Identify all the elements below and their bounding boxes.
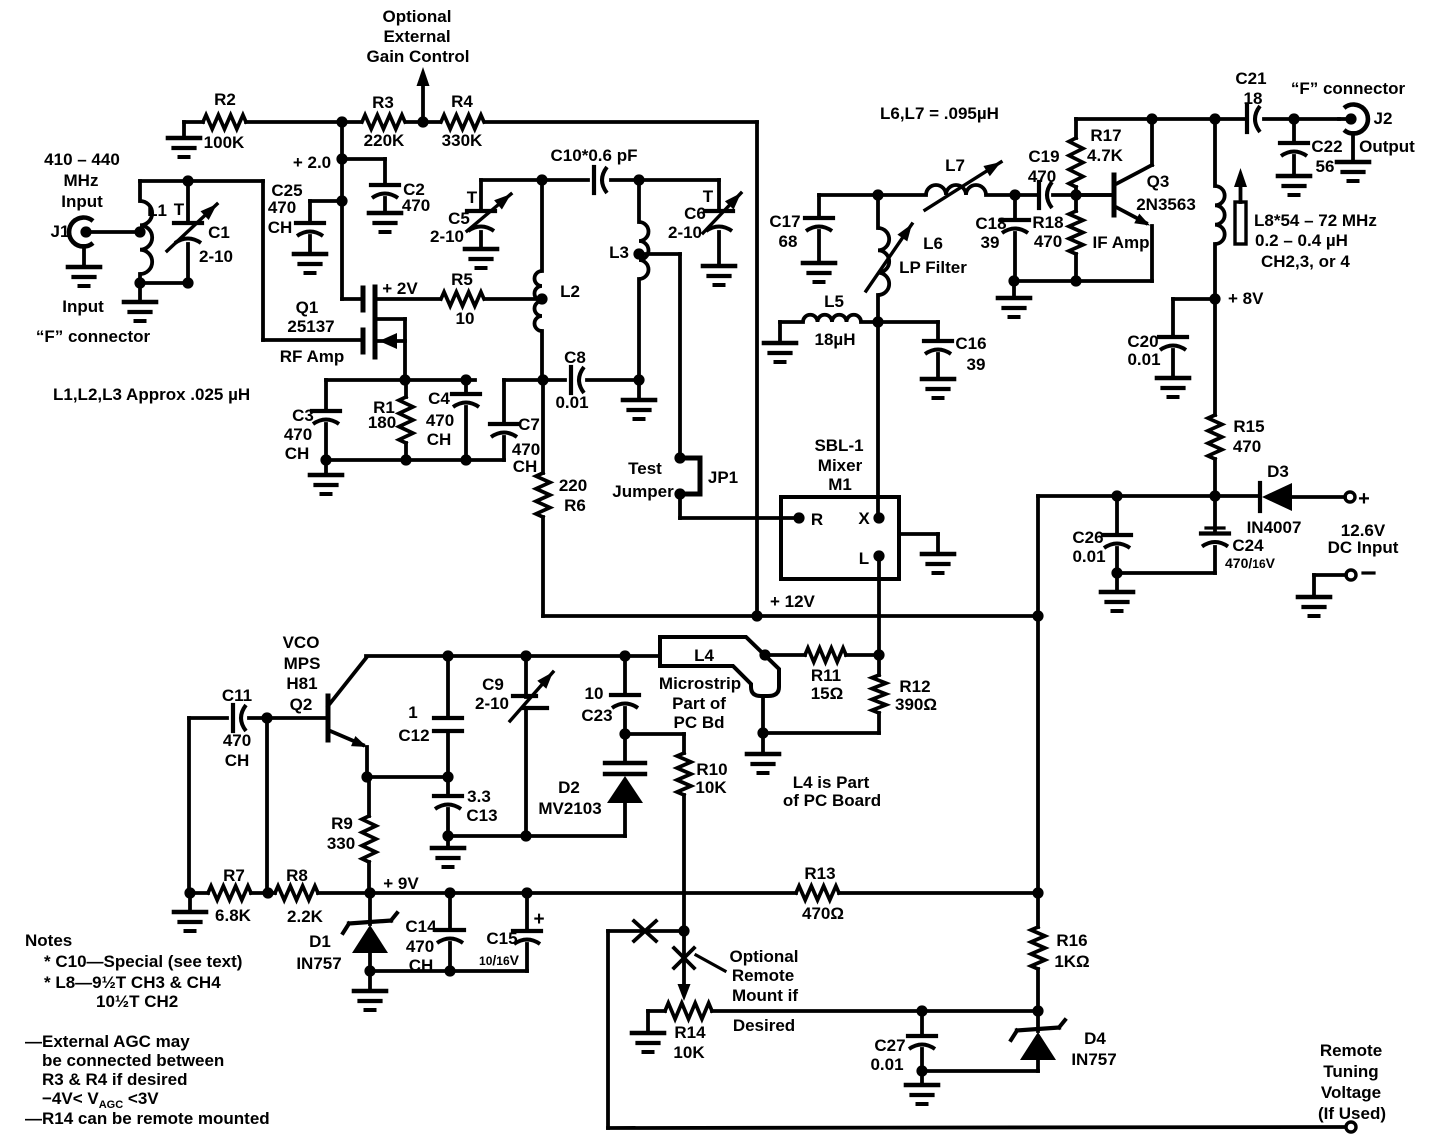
label Desired <box>733 1016 795 1035</box>
wire tuning node <box>712 1005 1038 1016</box>
label Part of <box>672 694 726 713</box>
capacitor C10 <box>551 146 638 193</box>
svg-text:CH: CH <box>427 430 452 449</box>
svg-text:T: T <box>467 188 478 207</box>
capacitor C4 <box>426 380 480 460</box>
ground IF amp <box>998 298 1030 317</box>
inductor L7 <box>925 156 1001 210</box>
svg-text:Desired: Desired <box>733 1016 795 1035</box>
resistor R18 <box>1032 195 1083 281</box>
label D1 <box>309 932 331 951</box>
capacitor C1 trimmer <box>167 181 233 283</box>
svg-text:D4: D4 <box>1084 1029 1106 1048</box>
svg-text:C20: C20 <box>1127 332 1158 351</box>
svg-text:“F” connector: “F” connector <box>1291 79 1406 98</box>
wire right power vertical <box>1036 496 1040 893</box>
svg-text:180: 180 <box>368 413 396 432</box>
svg-text:2N3563: 2N3563 <box>1136 195 1196 214</box>
ground C25 <box>294 254 326 273</box>
svg-text:470: 470 <box>1233 437 1261 456</box>
jumper JP1 <box>612 452 738 518</box>
svg-text:Voltage: Voltage <box>1321 1083 1381 1102</box>
svg-text:—R14 can be remote mounted: —R14 can be remote mounted <box>25 1109 270 1128</box>
wire R12 bottom <box>763 733 879 754</box>
label Remote <box>732 966 794 985</box>
svg-text:220: 220 <box>559 476 587 495</box>
label Output <box>1359 137 1415 156</box>
note AGC2 <box>42 1051 224 1070</box>
ground C17 <box>803 263 835 282</box>
svg-text:H81: H81 <box>286 674 317 693</box>
zener D4 <box>922 1011 1065 1071</box>
svg-text:R3: R3 <box>372 93 394 112</box>
resistor R5 <box>441 270 542 328</box>
label F connector <box>36 327 151 346</box>
resistor R6 <box>536 380 587 616</box>
svg-text:39: 39 <box>967 355 986 374</box>
label Remote2 <box>1320 1041 1382 1060</box>
svg-text:C14: C14 <box>405 917 437 936</box>
resistor R12 <box>872 655 937 733</box>
svg-text:2-10: 2-10 <box>430 227 464 246</box>
svg-text:68: 68 <box>779 232 798 251</box>
svg-text:D2: D2 <box>558 778 580 797</box>
label IN757 <box>296 954 341 973</box>
wire tank to gate 2 <box>263 181 362 340</box>
ground C20 <box>1157 378 1189 397</box>
svg-text:4.7K: 4.7K <box>1087 146 1124 165</box>
note AGC1 <box>25 1032 190 1051</box>
svg-text:D3: D3 <box>1267 462 1289 481</box>
svg-text:R: R <box>811 510 823 529</box>
capacitor C23 <box>581 656 639 740</box>
svg-text:MHz: MHz <box>64 171 99 190</box>
wire LP filter <box>819 189 1114 200</box>
resistor R1 <box>368 380 413 460</box>
note L1L2L3 <box>53 385 250 404</box>
svg-text:C23: C23 <box>581 706 612 725</box>
capacitor C16 <box>924 322 987 379</box>
svg-text:L6: L6 <box>923 234 943 253</box>
svg-text:L2: L2 <box>560 282 580 301</box>
label 410-440 <box>44 150 120 169</box>
svg-text:R16: R16 <box>1056 931 1087 950</box>
break mark X2 <box>674 948 694 968</box>
svg-text:+ 9V: + 9V <box>383 874 419 893</box>
pointer line <box>696 955 725 971</box>
capacitor C25 <box>268 181 342 254</box>
label F connector out <box>1291 79 1406 98</box>
svg-text:R13: R13 <box>804 864 835 883</box>
svg-text:L: L <box>859 549 869 568</box>
label Input <box>61 192 103 211</box>
wire zener rail <box>370 969 527 973</box>
ground mixer <box>922 554 954 573</box>
value label External <box>383 27 450 46</box>
svg-text:R3 & R4 if desired: R3 & R4 if desired <box>42 1070 188 1089</box>
svg-text:C27: C27 <box>874 1036 905 1055</box>
wire tank bottom <box>134 277 193 302</box>
terminal DC minus <box>1314 570 1374 597</box>
svg-text:Gain Control: Gain Control <box>367 47 470 66</box>
ground C5 <box>465 249 497 268</box>
svg-text:470: 470 <box>223 731 251 750</box>
svg-text:D1: D1 <box>309 932 331 951</box>
label 12.6V <box>1341 521 1386 540</box>
svg-text:10K: 10K <box>673 1043 705 1062</box>
ground J1 <box>68 267 100 286</box>
svg-text:R14: R14 <box>674 1023 706 1042</box>
label H81 <box>286 674 317 693</box>
wire C23 to R10 <box>625 732 684 736</box>
svg-text:0.2 – 0.4 µH: 0.2 – 0.4 µH <box>1255 231 1348 250</box>
label VCO <box>283 633 320 652</box>
label Input lower <box>62 297 104 316</box>
wire R2 ground stem <box>182 122 186 138</box>
capacitor C26 <box>1072 496 1131 592</box>
svg-text:C21: C21 <box>1235 69 1266 88</box>
resistor R3 <box>362 93 405 150</box>
svg-text:18: 18 <box>1244 89 1263 108</box>
inductor L4 microstrip <box>660 637 779 739</box>
ground C27 <box>906 1085 938 1104</box>
svg-text:R10: R10 <box>696 760 727 779</box>
svg-text:C5: C5 <box>448 209 470 228</box>
label Microstrip <box>659 674 741 693</box>
value label Optional <box>383 7 452 26</box>
svg-text:X: X <box>858 509 870 528</box>
inductor L8 <box>1209 119 1224 415</box>
resistor R16 <box>1031 893 1090 1017</box>
svg-text:(If Used): (If Used) <box>1318 1104 1386 1123</box>
capacitor C14 <box>405 893 464 977</box>
wire top AGC rail <box>184 116 757 127</box>
ground C26 <box>1101 592 1133 611</box>
label +9V <box>383 874 419 893</box>
capacitor C20 <box>1127 299 1215 378</box>
svg-text:—External AGC may: —External AGC may <box>25 1032 190 1051</box>
label L4 is Part <box>793 773 870 792</box>
capacitor C11 <box>189 686 273 770</box>
label IN757 D4 <box>1071 1050 1116 1069</box>
label D2 <box>558 778 580 797</box>
wire mixer case ground <box>899 534 938 554</box>
transistor Q2 <box>267 658 367 777</box>
svg-text:470: 470 <box>284 425 312 444</box>
resistor R4 <box>441 92 484 150</box>
label L8 CH <box>1261 252 1350 271</box>
svg-text:C17: C17 <box>769 212 800 231</box>
ground L5 <box>764 343 796 362</box>
svg-text:C6: C6 <box>684 204 706 223</box>
svg-text:J2: J2 <box>1374 109 1393 128</box>
svg-text:IF Amp: IF Amp <box>1093 233 1150 252</box>
wire varactor rail <box>448 830 625 841</box>
svg-text:Q1: Q1 <box>296 298 319 317</box>
svg-text:Input: Input <box>61 192 103 211</box>
svg-text:C4: C4 <box>428 389 450 408</box>
svg-text:L1: L1 <box>147 201 167 220</box>
label D4 <box>1084 1029 1106 1048</box>
note Notes <box>25 931 72 950</box>
svg-text:10: 10 <box>585 684 604 703</box>
capacitor C17 <box>769 195 833 263</box>
label Voltage <box>1321 1083 1381 1102</box>
wire remote tuning bottom <box>608 1127 1345 1128</box>
note L6L7 <box>880 104 999 123</box>
capacitor C22 <box>1280 119 1343 176</box>
svg-text:10: 10 <box>456 309 475 328</box>
capacitor C15 <box>479 893 545 971</box>
svg-text:470: 470 <box>1034 232 1062 251</box>
capacitor C8 <box>537 348 644 412</box>
slug arrow L8 <box>1234 168 1247 244</box>
svg-text:“F” connector: “F” connector <box>36 327 151 346</box>
note C10 <box>44 952 242 971</box>
label Q2 <box>290 695 313 714</box>
svg-text:VCO: VCO <box>283 633 320 652</box>
label +2V <box>382 279 418 298</box>
ground C6 <box>703 266 735 285</box>
svg-text:R17: R17 <box>1090 126 1121 145</box>
diode D3 <box>1247 462 1345 537</box>
label of PC Board <box>783 791 881 810</box>
svg-text:2.2K: 2.2K <box>287 907 324 926</box>
label L4 <box>694 646 714 665</box>
svg-text:L4 is Part: L4 is Part <box>793 773 870 792</box>
note R14 <box>25 1109 270 1128</box>
svg-text:DC Input: DC Input <box>1328 538 1399 557</box>
ground J2 <box>1337 162 1369 181</box>
wire L3 tap to JP1 <box>639 254 680 458</box>
svg-text:J1: J1 <box>51 222 70 241</box>
svg-text:39: 39 <box>981 233 1000 252</box>
terminal DC plus <box>1345 488 1370 510</box>
label +8V <box>1228 289 1264 308</box>
svg-text:100K: 100K <box>204 133 245 152</box>
wire VCO collector rail <box>366 650 660 661</box>
svg-text:C19: C19 <box>1028 147 1059 166</box>
transistor Q3 <box>1076 119 1152 281</box>
svg-text:470: 470 <box>426 411 454 430</box>
svg-text:10½T CH2: 10½T CH2 <box>96 992 178 1011</box>
capacitor C2 <box>342 159 430 215</box>
node AGC arrow <box>417 67 430 122</box>
svg-text:CH: CH <box>225 751 250 770</box>
label +2.0 <box>293 153 331 172</box>
ground D1 <box>354 991 386 1010</box>
svg-text:C7: C7 <box>518 415 540 434</box>
label 25137 <box>287 317 334 336</box>
ground C16 <box>922 379 954 398</box>
svg-text:Test: Test <box>628 459 662 478</box>
ground L4 <box>747 754 779 773</box>
wire tank top <box>140 175 263 186</box>
label MHz <box>64 171 99 190</box>
capacitor C7 <box>490 380 543 476</box>
terminal remote tuning <box>1346 1122 1356 1132</box>
wire 1st IF top <box>481 174 719 185</box>
svg-text:470Ω: 470Ω <box>802 904 844 923</box>
svg-text:25137: 25137 <box>287 317 334 336</box>
resistor R2 <box>203 90 246 152</box>
svg-text:R2: R2 <box>214 90 236 109</box>
wire VCO emitter rail <box>361 771 453 782</box>
svg-text:be connected between: be connected between <box>42 1051 224 1070</box>
svg-text:0.01: 0.01 <box>870 1055 903 1074</box>
svg-text:C26: C26 <box>1072 528 1103 547</box>
label J1 <box>51 222 70 241</box>
svg-text:0.01: 0.01 <box>1127 350 1160 369</box>
svg-text:56: 56 <box>1316 157 1335 176</box>
resistor R11 <box>765 648 885 703</box>
ground C2 <box>369 213 401 232</box>
wire L port down <box>877 556 881 655</box>
wire R10 to wiper <box>682 931 686 984</box>
svg-text:Optional: Optional <box>730 947 799 966</box>
ground R7 <box>174 912 206 931</box>
port R <box>793 510 823 529</box>
inductor L3 <box>609 180 648 380</box>
inductor L2 <box>535 180 580 380</box>
ground C22 <box>1278 176 1310 195</box>
resistor R9 <box>327 777 376 893</box>
capacitor C12 <box>398 656 462 777</box>
svg-text:L3: L3 <box>609 243 629 262</box>
svg-text:Remote: Remote <box>732 966 794 985</box>
svg-text:470/16V: 470/16V <box>1225 555 1276 571</box>
ground R2 left <box>168 138 200 157</box>
potentiometer R14 <box>648 984 712 1062</box>
svg-text:R12: R12 <box>899 677 930 696</box>
svg-text:410 – 440: 410 – 440 <box>44 150 120 169</box>
label Mount if <box>732 986 798 1005</box>
ground R14 <box>632 1033 664 1052</box>
svg-text:External: External <box>383 27 450 46</box>
connector J2 <box>1339 104 1368 162</box>
svg-text:470: 470 <box>402 196 430 215</box>
svg-text:18µH: 18µH <box>815 330 856 349</box>
varactor D2 <box>605 734 645 836</box>
resistor R7 <box>208 866 252 925</box>
svg-text:* C10—Special (see text): * C10—Special (see text) <box>44 952 242 971</box>
label Optional2 <box>730 947 799 966</box>
svg-text:Microstrip: Microstrip <box>659 674 741 693</box>
capacitor C9 trimmer <box>475 656 553 836</box>
svg-text:330: 330 <box>327 834 355 853</box>
label J2 <box>1374 109 1393 128</box>
svg-text:C13: C13 <box>466 806 497 825</box>
svg-text:IN757: IN757 <box>296 954 341 973</box>
label DC Input <box>1328 538 1399 557</box>
svg-text:2-10: 2-10 <box>199 247 233 266</box>
svg-text:MPS: MPS <box>284 654 321 673</box>
svg-text:L5: L5 <box>824 292 844 311</box>
label Q3 <box>1147 172 1170 191</box>
svg-text:390Ω: 390Ω <box>895 695 937 714</box>
svg-text:R18: R18 <box>1032 213 1063 232</box>
svg-text:M1: M1 <box>828 475 852 494</box>
svg-text:10K: 10K <box>695 778 727 797</box>
label PC Bd <box>674 713 725 732</box>
capacitor C24 electrolytic <box>1117 496 1276 573</box>
svg-text:JP1: JP1 <box>708 468 738 487</box>
wire IF emitter rail <box>1008 275 1152 298</box>
svg-text:C9: C9 <box>482 675 504 694</box>
note L8 <box>44 973 221 992</box>
svg-text:330K: 330K <box>442 131 483 150</box>
svg-text:CH: CH <box>285 444 310 463</box>
svg-text:470: 470 <box>1028 167 1056 186</box>
svg-text:R6: R6 <box>564 496 586 515</box>
svg-text:IN757: IN757 <box>1071 1050 1116 1069</box>
svg-text:C10*0.6 pF: C10*0.6 pF <box>551 146 638 165</box>
svg-text:+: + <box>1358 488 1370 510</box>
capacitor C21 <box>1235 69 1266 132</box>
capacitor C13 <box>434 777 498 848</box>
resistor R8 <box>275 866 324 926</box>
wire L6 to X port <box>876 322 880 518</box>
svg-text:R15: R15 <box>1233 417 1264 436</box>
svg-text:470: 470 <box>406 937 434 956</box>
svg-text:C15: C15 <box>486 929 517 948</box>
wire +9V rail <box>184 887 1043 898</box>
wire IF output rail <box>1076 113 1339 124</box>
svg-text:10/16V: 10/16V <box>479 952 520 968</box>
port L <box>859 549 885 568</box>
wire 12V feed <box>1038 490 1260 501</box>
svg-text:0.01: 0.01 <box>555 393 588 412</box>
wire right dropper to +12V rail <box>755 122 759 616</box>
svg-text:MV2103: MV2103 <box>538 799 601 818</box>
svg-text:15Ω: 15Ω <box>811 684 844 703</box>
connector J1 <box>69 218 140 267</box>
svg-text:L1,L2,L3 Approx .025 µH: L1,L2,L3 Approx .025 µH <box>53 385 250 404</box>
svg-text:C24: C24 <box>1232 536 1264 555</box>
svg-text:RF Amp: RF Amp <box>280 347 345 366</box>
label MV2103 <box>538 799 601 818</box>
svg-text:470: 470 <box>268 198 296 217</box>
svg-text:R9: R9 <box>331 814 353 833</box>
svg-text:L4: L4 <box>694 646 714 665</box>
svg-text:0.01: 0.01 <box>1072 547 1105 566</box>
svg-text:* L8—9½T CH3 & CH4: * L8—9½T CH3 & CH4 <box>44 973 221 992</box>
svg-text:6.8K: 6.8K <box>215 906 252 925</box>
svg-text:L7: L7 <box>945 156 965 175</box>
svg-text:+: + <box>533 909 544 930</box>
svg-text:R7: R7 <box>223 866 245 885</box>
value label Gain Control <box>367 47 470 66</box>
svg-text:C12: C12 <box>398 726 429 745</box>
inductor L5 <box>780 292 938 349</box>
svg-text:L6,L7 = .095µH: L6,L7 = .095µH <box>880 104 999 123</box>
wire source rail <box>326 374 475 385</box>
svg-text:Tuning: Tuning <box>1323 1062 1378 1081</box>
svg-text:+ 2V: + 2V <box>382 279 418 298</box>
inductor L6 <box>866 195 967 322</box>
svg-text:R5: R5 <box>451 270 473 289</box>
wire C11 left down <box>187 718 191 893</box>
svg-text:1KΩ: 1KΩ <box>1054 952 1089 971</box>
svg-text:of PC Board: of PC Board <box>783 791 881 810</box>
ground tank <box>124 302 156 321</box>
label Q1 <box>296 298 319 317</box>
svg-text:CH: CH <box>268 218 293 237</box>
wire bias to gate 1 <box>342 297 362 301</box>
wire remote stub <box>608 925 690 1128</box>
transistor Q1 dual-gate MOSFET <box>363 287 440 380</box>
svg-text:CH2,3, or 4: CH2,3, or 4 <box>1261 252 1350 271</box>
